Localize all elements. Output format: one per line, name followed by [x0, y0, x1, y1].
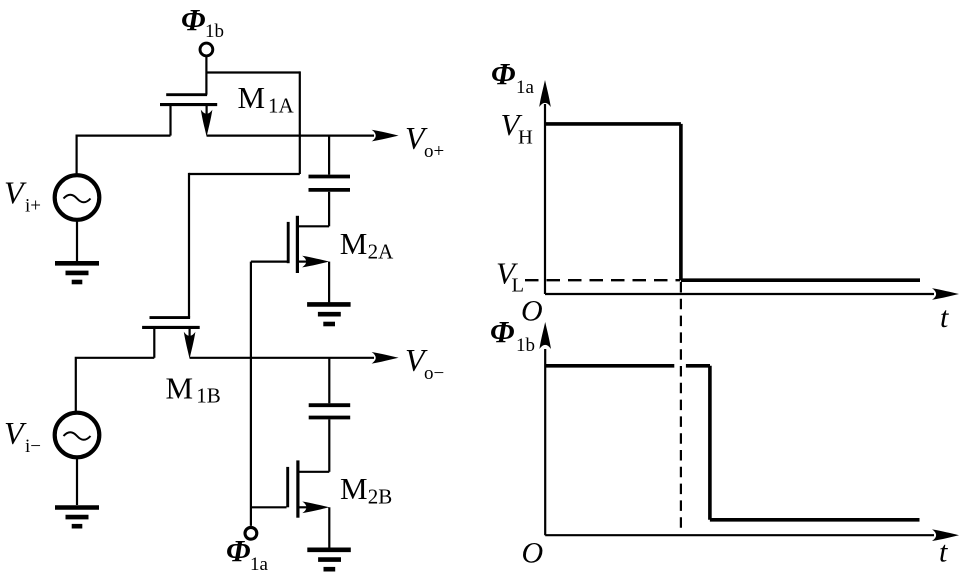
plot2 waveform low level [710, 518, 920, 522]
svg-text:H: H [518, 127, 533, 149]
plot1 y-axis arrowhead [539, 80, 551, 107]
svg-text:Φ: Φ [491, 56, 515, 91]
capacitor C1 bottom lead [328, 192, 330, 227]
svg-text:t: t [940, 301, 949, 334]
svg-text:Φ: Φ [490, 314, 514, 349]
source Vi+ sine symbol [64, 195, 91, 203]
node Vo+ arrowhead [372, 130, 399, 142]
plot2 x-axis [545, 534, 934, 536]
svg-text:O: O [522, 537, 544, 570]
ground below Vi- [55, 505, 99, 510]
plot2 waveform high level segment 1 [545, 364, 674, 368]
plot2 y-axis [544, 349, 546, 535]
plot2 waveform falling edge [708, 366, 712, 520]
svg-text:V: V [4, 415, 27, 451]
plot1 dashed VL level line [525, 279, 680, 281]
transistor M1B gate bar [150, 316, 191, 319]
transistor M1A drain arrow [201, 110, 213, 137]
dashed vertical timing line [680, 282, 682, 532]
plot2 waveform high level segment 2 [686, 364, 710, 368]
svg-text:1A: 1A [268, 94, 295, 118]
wire output Vo+ [207, 135, 374, 137]
svg-text:O: O [521, 295, 543, 328]
svg-text:M: M [166, 371, 194, 406]
svg-text:1b: 1b [516, 335, 535, 356]
transistor M2B gate bar [286, 467, 289, 507]
transistor M2B drain lead [299, 471, 329, 473]
svg-text:i−: i− [25, 436, 41, 457]
wire Vi+ to ground [76, 221, 78, 261]
transistor M1A drain lead [206, 105, 208, 118]
transistor M1B channel bar [142, 326, 200, 329]
capacitor C1 top plate [309, 175, 351, 179]
transistor M1B drain arrow [184, 332, 196, 359]
transistor M2A gate lead [251, 261, 287, 263]
plot1 waveform falling edge [679, 124, 683, 280]
capacitor C2 bottom lead [328, 419, 330, 471]
svg-text:2B: 2B [368, 485, 393, 509]
transistor M2B gate lead [251, 506, 287, 508]
transistor M2A drain lead [299, 225, 329, 227]
plot1 x-axis [545, 293, 934, 295]
svg-text:t: t [939, 536, 948, 569]
wire output Vo- [190, 357, 374, 359]
ground below Vi+ [55, 261, 99, 266]
svg-text:L: L [512, 274, 525, 296]
capacitor C2 top plate [309, 403, 351, 407]
wire phi_1b down to M1B gate [188, 173, 190, 318]
plot1 x-axis arrowhead [932, 288, 959, 300]
svg-text:Φ: Φ [181, 2, 205, 37]
wire phi_1b horizontal at y=174 [189, 173, 300, 175]
plot2 y-axis arrowhead [539, 322, 551, 349]
plot2 x-axis arrowhead [932, 529, 959, 541]
svg-text:o+: o+ [424, 141, 444, 162]
transistor M2A gate bar [287, 222, 290, 263]
svg-text:Φ: Φ [226, 533, 250, 568]
transistor M1A gate bar [166, 93, 207, 96]
plot1 waveform low level [681, 278, 920, 282]
transistor M1A channel bar [160, 103, 217, 106]
wire phi_1b terminal to M1A gate [205, 56, 207, 95]
wire Vi- to ground [76, 459, 78, 506]
node phi_1b terminal circle [200, 43, 213, 56]
transistor M2A source arrow [302, 256, 329, 268]
ground below M2A [307, 302, 351, 307]
wire M1A source to Vi+ [77, 136, 171, 174]
wire M2A source to ground [328, 262, 330, 303]
svg-text:M: M [340, 226, 368, 261]
node Vo- arrowhead [372, 352, 399, 364]
transistor M2B channel bar [296, 460, 299, 517]
source Vi- sine symbol [64, 432, 91, 440]
capacitor C2 bottom plate [309, 416, 351, 420]
svg-text:2A: 2A [368, 240, 395, 264]
plot1 y-axis [544, 104, 546, 294]
wire phi_1a vertical [250, 262, 252, 526]
transistor M2A channel bar [296, 216, 299, 273]
svg-text:i+: i+ [25, 196, 41, 217]
source Vi- circle [55, 413, 100, 458]
ground below M2B [307, 547, 351, 552]
capacitor C1 bottom plate [309, 188, 351, 192]
transistor M2B source lead [299, 506, 310, 508]
transistor M1B drain lead [189, 327, 191, 340]
wire phi_1b top horizontal to right [206, 71, 299, 73]
node phi_1a terminal circle [245, 527, 257, 539]
svg-text:1B: 1B [196, 384, 221, 408]
transistor M2B source arrow [302, 502, 329, 514]
source Vi+ circle [55, 175, 100, 220]
transistor M1B source lead [153, 327, 155, 357]
transistor M1A source lead [169, 105, 171, 136]
transistor M2A source lead [299, 261, 310, 263]
svg-text:1b: 1b [205, 21, 224, 42]
svg-text:o−: o− [424, 363, 444, 384]
capacitor C1 top lead [328, 136, 330, 175]
wire M2B source to ground [328, 507, 330, 548]
wire phi_1b vertical down at x=299.8 [299, 71, 301, 174]
wire M1B source to Vi- [76, 358, 155, 411]
capacitor C2 top lead [328, 358, 330, 404]
svg-text:1a: 1a [516, 77, 535, 98]
plot1 waveform high level [545, 122, 681, 126]
svg-text:M: M [238, 80, 266, 115]
svg-text:M: M [340, 471, 368, 506]
svg-text:1a: 1a [250, 554, 269, 575]
svg-text:V: V [4, 175, 27, 211]
